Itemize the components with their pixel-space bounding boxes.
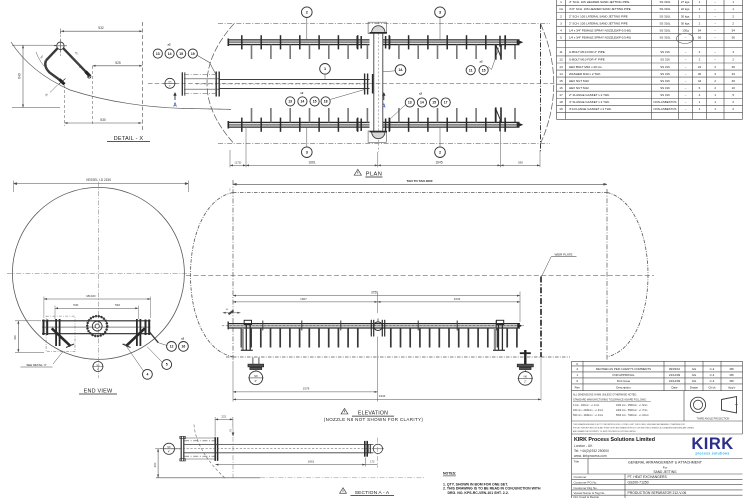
balloon 15 <box>177 49 186 58</box>
leader balloon 4 <box>125 344 144 372</box>
svg-text:process solutions: process solutions <box>695 452 729 456</box>
leader from balloon 19 to nozzle flange <box>197 56 215 74</box>
see detail X leader <box>53 352 63 364</box>
svg-text:4" SCH. 10S HEADER SAND JETTIN: 4" SCH. 10S HEADER SAND JETTING PIPE <box>569 0 629 4</box>
end view right leader stub <box>148 331 158 343</box>
svg-text:56: 56 <box>698 35 702 39</box>
svg-text:400: 400 <box>153 462 157 467</box>
svg-text:A: A <box>173 103 177 109</box>
vessel right tangent line <box>606 189 608 361</box>
svg-text:1943: 1943 <box>379 394 386 398</box>
title label column divider <box>587 459 589 475</box>
U-bolt support top-right lateral <box>496 36 515 60</box>
plan vessel shell bottom line <box>218 143 550 145</box>
svg-text:17: 17 <box>444 101 448 105</box>
end view vessel ID dim <box>14 183 189 185</box>
detail X pipe end circle <box>57 42 64 49</box>
nozzle N8 symbol circle in plan <box>165 78 175 88</box>
svg-text:525: 525 <box>115 61 121 65</box>
svg-text:DRG. NO. KPS-RC-VEN-101 SHT. 2: DRG. NO. KPS-RC-VEN-101 SHT. 2-2. <box>448 491 509 495</box>
elevation pipe left end cap <box>227 322 229 330</box>
svg-text:SS 316: SS 316 <box>660 79 670 83</box>
svg-text:HEX BOLT M10 x 40 LG.: HEX BOLT M10 x 40 LG. <box>569 65 603 69</box>
svg-text:14: 14 <box>301 100 305 104</box>
svg-text:SS 316: SS 316 <box>660 50 670 54</box>
elevation right support <box>496 320 503 324</box>
leader balloons 13-18 to header flange <box>330 90 364 100</box>
svg-text:4" FLANGE GASKET x 2 THK.: 4" FLANGE GASKET x 2 THK. <box>569 100 610 104</box>
svg-text:NON-ASBESTOS: NON-ASBESTOS <box>654 107 677 111</box>
svg-text:6": 6" <box>97 369 99 371</box>
svg-text:3: 3 <box>306 151 308 155</box>
svg-text:C-4: C-4 <box>710 379 715 383</box>
svg-text:x2: x2 <box>167 43 171 47</box>
svg-text:3750: 3750 <box>371 290 378 294</box>
svg-text:2: 2 <box>306 11 308 15</box>
vessel shell top line <box>233 192 607 194</box>
cross pipe 1A top tee box <box>368 22 386 33</box>
plan label triangle <box>354 169 361 175</box>
balloon 4 <box>143 369 153 379</box>
svg-text:GG: GG <box>692 367 697 371</box>
svg-text:SS 316L: SS 316L <box>659 0 670 4</box>
section dim 1661 <box>215 464 365 466</box>
plan vessel shell top line <box>218 23 550 25</box>
section end gasket bars <box>368 445 370 454</box>
vessel left dished head <box>191 193 234 357</box>
svg-text:x2: x2 <box>300 91 304 95</box>
end view dim dia upper <box>44 298 151 300</box>
svg-text:PT. HEAT EXCHANGERS: PT. HEAT EXCHANGERS <box>628 475 668 479</box>
lateral pipe 2 top-left segment <box>228 39 370 41</box>
header pipe flange at vessel <box>215 72 217 97</box>
svg-text:END VIEW: END VIEW <box>84 388 113 394</box>
section nozzle neck hidden lines <box>184 440 215 442</box>
svg-text:1661: 1661 <box>308 460 315 464</box>
svg-text:SS 316: SS 316 <box>660 86 670 90</box>
svg-text:ALL DIMENSIONS IN MM UNLESS OT: ALL DIMENSIONS IN MM UNLESS OTHERWISE NO… <box>573 393 637 396</box>
balloon 17 lateral set <box>441 98 450 107</box>
detail X head curve phantom extension <box>180 108 232 109</box>
svg-text:13: 13 <box>156 52 160 56</box>
svg-text:Customer: Customer <box>574 475 587 479</box>
section dim ext lines <box>364 458 366 467</box>
svg-text:KIRK Process Solutions Limited: KIRK Process Solutions Limited <box>574 437 655 443</box>
svg-text:THIRD ANGLE PROJECTION: THIRD ANGLE PROJECTION <box>697 417 730 420</box>
plan right tangent line <box>540 24 542 152</box>
balloon 14 lateral set <box>417 98 426 107</box>
detail X vessel head curve <box>11 42 231 109</box>
svg-text:x2: x2 <box>419 92 423 96</box>
balloon 3 bottom <box>302 147 313 158</box>
svg-text:SS 316L: SS 316L <box>659 21 670 25</box>
svg-text:1: 1 <box>560 0 562 4</box>
svg-text:1607: 1607 <box>300 297 307 301</box>
balloon 14 header set <box>298 97 307 106</box>
svg-text:15: 15 <box>432 101 436 105</box>
svg-text:17: 17 <box>559 93 563 97</box>
cross pipe 1A bottom elbow dome <box>372 132 385 139</box>
cross pipe 1A top elbow dome <box>372 26 385 33</box>
svg-text:MK: MK <box>730 373 734 377</box>
svg-text:Date: Date <box>671 385 677 389</box>
svg-text:14: 14 <box>559 72 563 76</box>
end view shell circle <box>12 187 184 359</box>
vessel centerline <box>186 274 654 276</box>
balloon 2 top <box>302 7 313 18</box>
svg-text:14: 14 <box>420 101 424 105</box>
svg-text:PLAN: PLAN <box>366 171 382 177</box>
lateral pipe 3 top-right segment <box>383 39 520 41</box>
svg-text:GS200-71250: GS200-71250 <box>628 481 649 485</box>
elevation center elbow circle <box>374 322 383 331</box>
detail X ext line mid dashed <box>92 66 94 126</box>
svg-text:4"/2" SCH. 10S HEADER SAND JET: 4"/2" SCH. 10S HEADER SAND JETTING PIPE <box>569 7 631 11</box>
weir plate <box>540 277 542 358</box>
end view dim 530 530 <box>55 307 138 309</box>
svg-text:46: 46 <box>732 79 736 83</box>
svg-text:Description: Description <box>616 385 631 389</box>
svg-text:536: 536 <box>518 160 523 164</box>
svg-text:19: 19 <box>559 107 563 111</box>
nozzle N8 neck in plan <box>184 74 216 76</box>
section N8 circle <box>163 443 174 454</box>
svg-text:4": 4" <box>169 86 171 88</box>
svg-text:1578: 1578 <box>303 387 310 391</box>
bottom lateral nozzle ticks crossing <box>242 118 505 132</box>
balloon 2 bottom <box>435 147 446 158</box>
bottom lateral end caps <box>227 121 229 129</box>
elevation dim 3750 <box>233 295 520 297</box>
balloon 14 <box>165 49 174 58</box>
detail X right nozzle tip <box>86 72 91 77</box>
svg-text:4": 4" <box>168 452 170 454</box>
svg-text:1: 1 <box>324 67 326 71</box>
svg-text:Rev: Rev <box>575 385 581 389</box>
N8 nozzle elevation stem <box>252 358 254 365</box>
svg-text:530: 530 <box>100 118 106 122</box>
balloon 11 <box>466 66 475 75</box>
svg-text:400: 400 <box>13 335 17 340</box>
svg-text:2": 2" <box>524 380 526 384</box>
leader balloon 1A <box>383 71 395 72</box>
end view right clamp <box>136 319 138 346</box>
revision table grid <box>572 360 743 362</box>
svg-text:530: 530 <box>73 303 78 307</box>
svg-text:KIRK: KIRK <box>691 435 733 453</box>
elevation dim 1607 <box>233 301 378 303</box>
plan right head curve <box>541 24 554 144</box>
svg-text:11: 11 <box>559 50 562 54</box>
cross pipe 1A bottom tee box <box>368 131 386 142</box>
svg-text:Ch'ck: Ch'ck <box>708 385 716 389</box>
svg-text:www. kirkprocess.com: www. kirkprocess.com <box>574 454 607 458</box>
svg-text:SS 316L: SS 316L <box>659 28 670 32</box>
end view right 45 nozzle leg <box>126 328 145 346</box>
svg-text:NON-ASBESTOS: NON-ASBESTOS <box>654 100 677 104</box>
svg-text:PRODUCTION SEPARATOR 212-V-06: PRODUCTION SEPARATOR 212-V-06 <box>628 491 687 495</box>
elevation jetting pipe body <box>228 323 521 325</box>
svg-text:5: 5 <box>166 363 168 367</box>
end view detail X scope dashed box <box>46 316 75 352</box>
end view center flange mid <box>92 321 102 331</box>
BOM table rows text <box>559 0 735 111</box>
balloon 19 <box>188 49 197 58</box>
svg-text:1/4 x 3/4" FEMALE SPRAY NOZZLE: 1/4 x 3/4" FEMALE SPRAY NOZZLE(KP-0.5-60… <box>569 28 631 32</box>
N6 nozzle elevation bolt <box>524 350 526 364</box>
section arrow A near 1A <box>383 94 385 101</box>
svg-text:C-4: C-4 <box>710 367 715 371</box>
svg-text:10: 10 <box>732 86 736 90</box>
balloon 13 <box>153 49 162 58</box>
svg-text:U-BOLT M10 FOR 2" PIPE: U-BOLT M10 FOR 2" PIPE <box>569 50 605 54</box>
detail X dim 532 <box>61 30 142 32</box>
U-bolt support bottom-right lateral <box>496 107 515 131</box>
N8 symbol end view <box>93 362 103 372</box>
elevation pipe right end cap <box>518 324 522 328</box>
svg-text:18: 18 <box>324 100 328 104</box>
svg-text:HEX NUT M10: HEX NUT M10 <box>569 79 589 83</box>
detail X dim 25 stub <box>50 85 58 93</box>
weir plate leader <box>542 257 552 277</box>
svg-text:REVISED AS PER CLIENT'S COMMEN: REVISED AS PER CLIENT'S COMMENTS <box>596 367 651 371</box>
revision cloud on BOM row 5 <box>677 34 694 44</box>
detail X angle arc left 45deg <box>36 52 48 70</box>
detail X ext line nozzle dashed <box>64 85 66 126</box>
svg-text:London - UK: London - UK <box>574 444 593 448</box>
svg-text:6": 6" <box>255 379 257 383</box>
svg-text:16: 16 <box>559 86 563 90</box>
svg-text:SS 316: SS 316 <box>660 72 670 76</box>
vessel left tangent line <box>232 180 234 361</box>
svg-text:18: 18 <box>559 100 563 104</box>
section arrow A near nozzle <box>174 94 176 101</box>
svg-text:3: 3 <box>439 11 441 15</box>
section end circle <box>373 444 382 453</box>
detail X dim 530 bottom <box>65 122 142 124</box>
detail X left nozzle tip <box>60 80 65 85</box>
svg-text:22 kgs.: 22 kgs. <box>681 7 691 11</box>
svg-text:WASHER M10 x 2 THK.: WASHER M10 x 2 THK. <box>569 72 601 76</box>
detail X angle arc right 45deg <box>72 57 80 68</box>
svg-text:2" FLANGE GASKET x 2 THK.: 2" FLANGE GASKET x 2 THK. <box>569 93 610 97</box>
third angle projection cone <box>722 397 737 414</box>
svg-text:First Issue: First Issue <box>617 379 631 383</box>
svg-text:1000 mm - 2500mm : +/- 5mm: 1000 mm - 2500mm : +/- 5mm <box>616 405 647 407</box>
svg-text:24/12/09: 24/12/09 <box>669 373 681 377</box>
detail X dim 640 vertical <box>22 45 24 107</box>
balloon 13 lateral set <box>405 98 414 107</box>
header pipe field flange pair <box>364 74 366 95</box>
svg-text:App'v: App'v <box>728 385 736 389</box>
svg-text:30: 30 <box>732 65 736 69</box>
end view vertical centerline <box>97 182 99 378</box>
svg-text:Customer Drg No.: Customer Drg No. <box>574 486 598 490</box>
elevation left support <box>244 320 251 324</box>
section dim 222 <box>215 418 233 420</box>
svg-text:SECTION A - A: SECTION A - A <box>355 490 390 496</box>
svg-text:16: 16 <box>182 345 186 349</box>
detail X left 45 deg pipe <box>46 48 58 60</box>
elevation pipe nozzles down <box>241 328 517 348</box>
top lateral nozzle ticks crossing <box>242 35 505 49</box>
balloon 1 <box>320 64 331 75</box>
leader balloon 2 bottom <box>439 127 441 147</box>
svg-text:AND REMAIN THE PROPERTY OF KIR: AND REMAIN THE PROPERTY OF KIRK PROCESS … <box>573 430 637 433</box>
svg-text:SS 316: SS 316 <box>660 58 670 62</box>
svg-text:FOR APPROVAL: FOR APPROVAL <box>612 373 635 377</box>
svg-text:N6: N6 <box>524 374 528 378</box>
elevation small dim 64 left <box>223 312 241 314</box>
leader balloons 12 16 <box>158 343 166 346</box>
svg-text:1633: 1633 <box>454 297 461 301</box>
section head curve <box>194 425 226 479</box>
svg-text:30 kgs.: 30 kgs. <box>681 21 691 25</box>
svg-text:4: 4 <box>146 373 148 377</box>
top lateral nozzle ticks long down <box>252 45 496 59</box>
end view pipe end caps dark <box>43 320 45 336</box>
tolerance block border <box>571 391 573 434</box>
svg-text:44: 44 <box>698 79 702 83</box>
svg-text:VESSEL I.D 2150: VESSEL I.D 2150 <box>86 178 111 182</box>
svg-text:TAN TO TAN 4800: TAN TO TAN 4800 <box>407 179 433 183</box>
detail X right 45 deg pipe <box>63 48 87 73</box>
svg-text:x2: x2 <box>181 337 185 341</box>
section label triangle <box>340 488 347 494</box>
svg-text:33: 33 <box>732 72 736 76</box>
svg-text:A: A <box>382 104 386 110</box>
svg-text:13: 13 <box>559 65 563 69</box>
balloon 15 lateral set <box>430 98 439 107</box>
svg-text:19: 19 <box>191 52 195 56</box>
svg-text:C-4: C-4 <box>710 373 715 377</box>
svg-text:Tel: +44(0)1932 250000: Tel: +44(0)1932 250000 <box>574 449 609 453</box>
lateral pipe 2 bottom-right segment <box>383 121 520 123</box>
lateral flange pairs at 1A bottom <box>356 119 358 132</box>
end view center flange outer <box>87 316 107 336</box>
balloon 3 top <box>435 7 446 18</box>
nozzle N8 flange in plan <box>181 72 183 95</box>
plan dim ext lines <box>229 150 231 167</box>
N8 nozzle elevation flange <box>248 364 264 367</box>
section end ext line <box>377 438 379 468</box>
svg-text:Customer PO No.: Customer PO No. <box>574 481 598 485</box>
company block border <box>571 434 573 498</box>
svg-text:SS 316L: SS 316L <box>659 14 670 18</box>
svg-text:SS 316: SS 316 <box>660 93 670 97</box>
svg-text:130g: 130g <box>682 28 689 32</box>
title block row lines <box>572 458 743 460</box>
svg-text:30: 30 <box>698 72 702 76</box>
svg-text:640: 640 <box>18 73 22 79</box>
svg-text:172: 172 <box>370 460 375 464</box>
bottom lateral nozzle ticks long up <box>252 108 496 122</box>
balloon 1A <box>395 65 406 76</box>
section baseline <box>156 477 260 479</box>
svg-text:N8: N8 <box>254 374 258 378</box>
svg-text:13: 13 <box>408 101 412 105</box>
svg-text:54: 54 <box>698 28 702 32</box>
balloon 16 <box>179 342 189 352</box>
third angle projection circles <box>690 397 705 412</box>
detail X elbow <box>45 61 60 81</box>
svg-text:U-BOLT M10 FOR 4" PIPE: U-BOLT M10 FOR 4" PIPE <box>569 58 605 62</box>
svg-text:GG: GG <box>692 379 697 383</box>
svg-text:1661: 1661 <box>308 160 316 164</box>
svg-text:5: 5 <box>560 35 562 39</box>
dimension arrowheads <box>17 30 541 477</box>
svg-text:13: 13 <box>288 100 292 104</box>
svg-text:(NOZZLE N8 NOT SHOWN FOR CLARI: (NOZZLE N8 NOT SHOWN FOR CLARITY) <box>324 417 424 422</box>
svg-text:1/4 x 3/4" FEMALE SPRAY NOZZLE: 1/4 x 3/4" FEMALE SPRAY NOZZLE(KP-0.5-45… <box>569 35 631 39</box>
svg-text:24/12/09: 24/12/09 <box>669 379 681 383</box>
leader balloons 13-17 to lateral <box>389 105 406 121</box>
svg-text:x2: x2 <box>479 60 483 64</box>
elevation dim ext lines lower <box>232 361 234 402</box>
svg-text:1645: 1645 <box>435 160 443 164</box>
svg-text:09/03/10: 09/03/10 <box>669 367 681 371</box>
svg-text:12: 12 <box>559 58 563 62</box>
plan dimension line bottom <box>230 164 540 166</box>
elevation tan-to-tan dim line <box>233 183 607 185</box>
svg-text:For: For <box>663 465 668 469</box>
svg-text:SAND JETTING: SAND JETTING <box>653 470 677 474</box>
N6 nozzle symbol elevation <box>524 370 526 372</box>
end view dim 400 vertical <box>17 321 19 353</box>
svg-text:5000 mm - 7000mm : +/- 10mm: 5000 mm - 7000mm : +/- 10mm <box>616 415 649 417</box>
section dim 400 vertical <box>157 449 159 478</box>
section vessel flange pair <box>214 437 216 461</box>
leader balloon 3 bottom <box>306 127 308 147</box>
svg-text:SEE DETAIL 'X': SEE DETAIL 'X' <box>26 363 47 367</box>
svg-text:30 kgs.: 30 kgs. <box>681 14 691 18</box>
section right flange pair <box>364 441 366 457</box>
lateral flange pairs at 1A top <box>356 36 358 49</box>
vessel shell bottom line <box>226 356 570 358</box>
end view center flange hole <box>95 324 99 328</box>
elevation label triangle <box>341 408 348 414</box>
plan left head curve <box>207 24 234 144</box>
cross pipe 1A body <box>373 34 375 132</box>
svg-text:≈Ø1330≈: ≈Ø1330≈ <box>86 294 97 298</box>
section pipe body <box>184 443 373 445</box>
svg-text:56: 56 <box>732 35 736 39</box>
N6 nozzle elevation flange <box>517 364 533 367</box>
svg-text:WEIR PLATE: WEIR PLATE <box>555 252 573 256</box>
svg-text:MK: MK <box>730 379 734 383</box>
svg-text:4"A FLANGE GASKET x 2 THK.: 4"A FLANGE GASKET x 2 THK. <box>569 107 612 111</box>
svg-text:PROJECTS/PURPOSES OR IN ANY FO: PROJECTS/PURPOSES OR IN ANY FORM OR BY A… <box>573 427 695 430</box>
svg-text:THIS DRAWING/DESIGN IS NOT TO: THIS DRAWING/DESIGN IS NOT TO BE REPRODU… <box>573 423 686 426</box>
svg-text:4: 4 <box>560 28 562 32</box>
svg-text:ELEVATION: ELEVATION <box>358 411 388 417</box>
svg-text:SS 316: SS 316 <box>660 65 670 69</box>
svg-text:SS 316L: SS 316L <box>659 7 670 11</box>
svg-text:0 mm - 100mm : +/- 1mm: 0 mm - 100mm : +/- 1mm <box>573 405 599 407</box>
svg-text:500 mm - 1000mm : +/- 4mm: 500 mm - 1000mm : +/- 4mm <box>573 415 603 417</box>
balloon 5 <box>162 360 172 370</box>
svg-text:14: 14 <box>168 52 172 56</box>
elevation pipe coupling ticks <box>263 321 496 331</box>
svg-text:12: 12 <box>170 345 174 349</box>
svg-text:3: 3 <box>560 21 562 25</box>
section dim 172 <box>365 464 377 466</box>
svg-text:DETAIL - X: DETAIL - X <box>114 136 144 142</box>
section nozzle flange <box>180 437 182 462</box>
svg-text:15: 15 <box>313 100 317 104</box>
svg-text:MK: MK <box>730 367 734 371</box>
svg-text:GENERAL ARRANGEMENT & ATTACHME: GENERAL ARRANGEMENT & ATTACHMENT <box>628 460 703 464</box>
